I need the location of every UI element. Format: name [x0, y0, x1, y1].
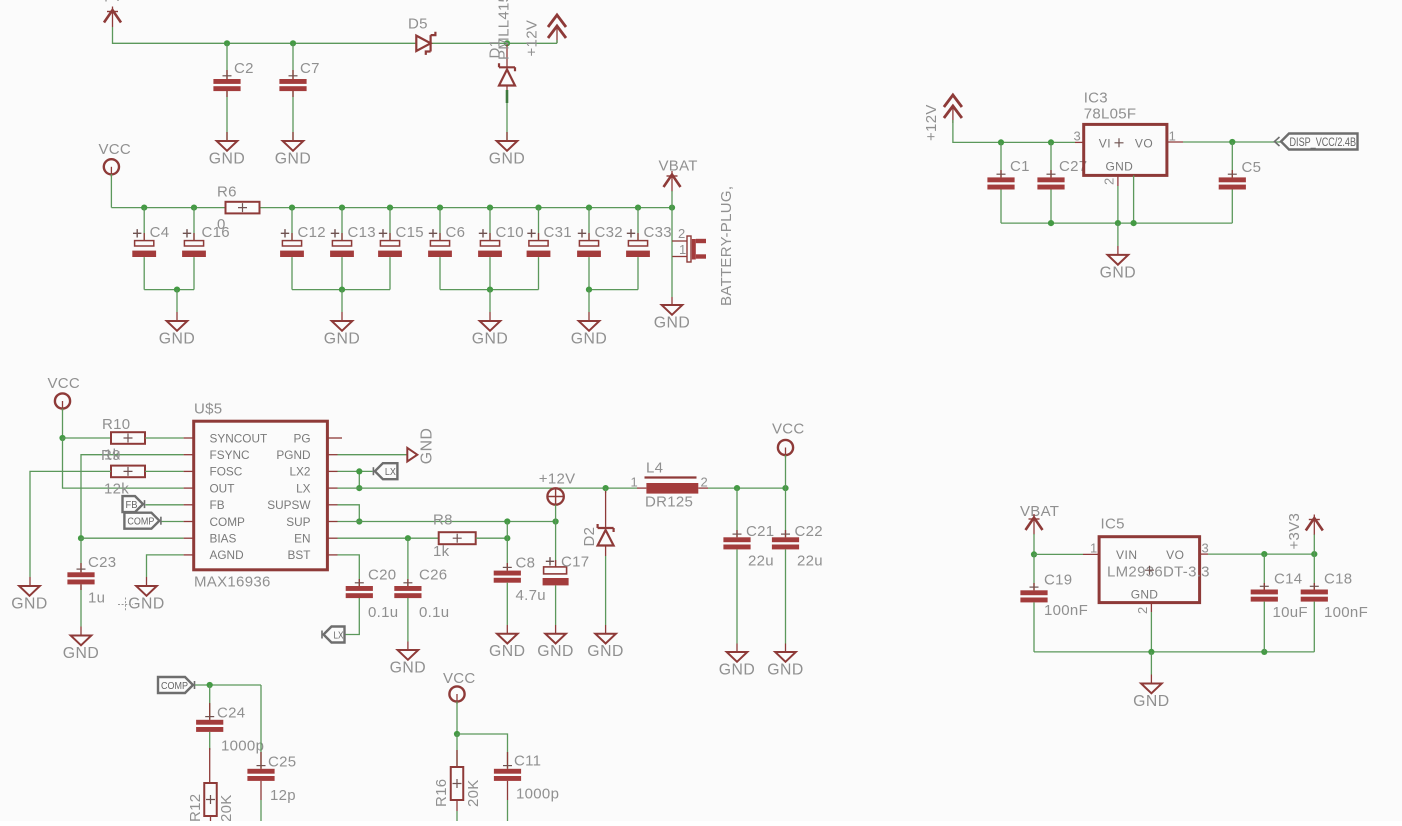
junction EN/C26: [405, 535, 411, 541]
svg-text:GND: GND: [1106, 159, 1134, 173]
ground below C8: [497, 634, 518, 644]
capacitor C21: [723, 534, 750, 549]
svg-text:+12V: +12V: [524, 20, 541, 57]
svg-text:1: 1: [1090, 541, 1098, 556]
junction VCC/R10: [59, 435, 65, 441]
capacitor C27: [1037, 174, 1064, 189]
svg-text:D2: D2: [581, 527, 598, 547]
junction rail C27: [1048, 220, 1054, 226]
U$5 pin EN (right stub): [327, 537, 337, 539]
svg-text:R12: R12: [187, 794, 204, 821]
wire C21 upper lead: [736, 488, 738, 537]
wire C18 to ground rail: [1313, 602, 1315, 652]
wire R9 to FOSC pin: [145, 470, 184, 472]
wire C17 upper lead: [555, 522, 557, 567]
wire R12 lower lead: [210, 816, 212, 821]
wire LX row to inductor: [338, 487, 638, 489]
wire C17 to ground: [555, 585, 557, 625]
junction VBAT/C19: [1031, 551, 1037, 557]
diode D1 PMLL415 (zener, vertical): [506, 43, 508, 68]
svg-text:78L05F: 78L05F: [1084, 106, 1137, 123]
capacitor C15 (polarized): [378, 229, 402, 257]
svg-text:2: 2: [701, 475, 709, 490]
svg-text:100nF: 100nF: [1324, 604, 1368, 621]
svg-text:GND: GND: [128, 596, 165, 613]
svg-text:VI: VI: [1099, 136, 1111, 150]
ground of IC5: [1141, 684, 1162, 694]
supply VCC (U$5): [55, 393, 70, 411]
net flag COMP (compensation): [158, 677, 195, 693]
wire LX2 to flag and LX tie: [338, 470, 373, 472]
svg-text:COMP: COMP: [161, 680, 188, 692]
svg-text:+12V: +12V: [539, 471, 576, 488]
svg-text:GND: GND: [767, 662, 804, 679]
junction rail C14: [1261, 649, 1267, 655]
wire VCC bus horizontal: [111, 207, 672, 209]
ground below C22: [775, 652, 796, 662]
wire C12 lower lead: [291, 257, 293, 290]
junction LX: [356, 485, 362, 491]
supply VCC (bus left): [104, 159, 119, 177]
svg-text:GND: GND: [472, 331, 509, 348]
wire C31 upper lead: [538, 208, 540, 241]
wire +3V3 stem: [1313, 535, 1315, 555]
resistor R6: [226, 202, 260, 214]
svg-text:12p: 12p: [270, 787, 296, 804]
wire VBAT stem: [671, 191, 673, 208]
wire C27 lower lead: [1050, 190, 1052, 224]
wire D2 to ground: [605, 546, 607, 557]
svg-text:C33: C33: [644, 224, 672, 241]
net flag FB: [123, 496, 145, 512]
wire FB flag to pin: [146, 504, 184, 506]
capacitor C8: [494, 567, 521, 582]
wire rail to ground: [588, 290, 590, 312]
junction bus at C13: [339, 205, 345, 211]
svg-text:DR125: DR125: [645, 494, 693, 511]
svg-text:1000p: 1000p: [516, 786, 559, 803]
wire IC5 GND pin down: [1150, 603, 1152, 612]
wire IC5 ground rail: [1034, 651, 1314, 653]
wire C11 lower lead: [507, 781, 509, 800]
svg-text:LX2: LX2: [290, 465, 311, 479]
svg-text:GND: GND: [1133, 693, 1170, 710]
U$5 pin BST (right stub): [327, 554, 337, 556]
wire C18 upper lead: [1313, 554, 1315, 589]
svg-text:FSYNC: FSYNC: [210, 448, 250, 462]
resistor R8: [439, 532, 476, 544]
battery plug connector X (BATTERY-PLUG): [672, 240, 687, 242]
ground below battery plug: [662, 305, 683, 315]
junction C14 tap: [1261, 551, 1267, 557]
wire C21 to ground: [736, 549, 738, 643]
capacitor C4 (polarized): [132, 229, 156, 257]
junction on ground rail: [487, 287, 493, 293]
junction bus at C32: [586, 205, 592, 211]
wire COMP down to C25: [260, 685, 262, 769]
svg-text:GND: GND: [571, 331, 608, 348]
wire R10 to SYNCOUT pin: [145, 437, 184, 439]
wire C10 lower lead: [489, 257, 491, 290]
wire C22 upper lead: [785, 488, 787, 537]
wire C14 to ground rail: [1263, 602, 1265, 652]
junction rail GND: [1148, 649, 1154, 655]
svg-text:VO: VO: [1135, 136, 1153, 150]
wire VBAT to IC5 VIN: [1034, 553, 1083, 555]
capacitor C20: [346, 583, 373, 598]
svg-text:L4: L4: [646, 460, 663, 477]
capacitor C17 (polarized): [543, 557, 569, 585]
IC U$5 MAX16936 box: [194, 421, 328, 570]
wire C27 upper lead: [1050, 142, 1052, 177]
capacitor C12 (polarized): [280, 229, 304, 257]
svg-text:GND: GND: [537, 643, 574, 660]
svg-text:20K: 20K: [218, 794, 235, 821]
svg-text:C1: C1: [1010, 158, 1030, 175]
U$5 pin AGND (left stub): [184, 554, 194, 556]
junction VBAT tap on bus: [669, 205, 675, 211]
ground below C17: [545, 634, 566, 644]
svg-text:GND: GND: [489, 151, 526, 168]
svg-text:20K: 20K: [465, 779, 482, 807]
wire C6 upper lead: [439, 208, 441, 241]
svg-text:C8: C8: [516, 555, 536, 572]
U$5 pin BIAS (left stub): [184, 537, 194, 539]
wire C5 lower lead: [1231, 190, 1233, 224]
IC3 voltage regulator 78L05F: [1084, 124, 1167, 175]
wire BIAS junction down to C23: [80, 538, 82, 572]
svg-text:GND: GND: [159, 331, 196, 348]
capacitor C19: [1020, 587, 1047, 602]
svg-text:GND: GND: [1100, 264, 1137, 281]
svg-text:C7: C7: [300, 60, 320, 77]
wire R8 right: [476, 537, 508, 539]
svg-text:1: 1: [631, 475, 639, 490]
ground of cap-bank group: [167, 321, 188, 331]
junction at D1 tap: [504, 40, 510, 46]
wire rail to ground: [341, 290, 343, 312]
svg-text:OUT: OUT: [210, 481, 235, 495]
svg-text:3: 3: [1202, 541, 1210, 556]
wire VCC stem: [110, 174, 112, 208]
wire C10 upper lead: [489, 208, 491, 241]
svg-text:MAX16936: MAX16936: [194, 574, 271, 591]
svg-text:IC5: IC5: [1101, 516, 1125, 533]
svg-text:BST: BST: [288, 548, 311, 562]
net flag COMP: [124, 513, 160, 529]
capacitor C2: [213, 76, 240, 91]
svg-text:C25: C25: [268, 754, 296, 771]
wire C15 upper lead: [389, 208, 391, 241]
wire rail to ground: [176, 290, 178, 312]
wire C33 lower lead: [637, 257, 639, 290]
wire COMP flag to C24/C25: [195, 684, 261, 686]
junction C22/VCC tap: [782, 485, 788, 491]
svg-text:COMP: COMP: [127, 516, 154, 528]
wire C31 lower lead: [538, 257, 540, 290]
U$5 pin LX2 (right stub): [327, 470, 337, 472]
junction C24: [207, 682, 213, 688]
svg-text:BATTERY-PLUG,: BATTERY-PLUG,: [718, 186, 735, 306]
U$5 pin OUT (left stub): [184, 487, 194, 489]
svg-text:GND: GND: [1131, 587, 1159, 601]
svg-text:C20: C20: [368, 567, 396, 584]
wire VBAT stem: [1033, 534, 1035, 554]
capacitor C31 (polarized): [527, 229, 551, 257]
junction bus at C10: [487, 205, 493, 211]
junction bus at C15: [387, 205, 393, 211]
junction rail GND pin 2: [1131, 220, 1137, 226]
junction C1 tap: [998, 139, 1004, 145]
capacitor C16 (polarized): [182, 229, 206, 257]
U$5 pin SUP (right stub): [327, 521, 337, 523]
svg-text:GND: GND: [390, 660, 427, 677]
junction rail GND pin: [1115, 220, 1121, 226]
wire BST down to C20: [338, 555, 360, 586]
ground at FOSC divider: [19, 586, 40, 596]
wire C33 upper lead: [637, 208, 639, 241]
wire C16 upper lead: [193, 208, 195, 241]
wire cap-bank ground rail: [292, 289, 390, 291]
ground below C23: [71, 636, 92, 646]
net flag DISP_VCC/2.4B: [1275, 134, 1358, 150]
svg-text:GND: GND: [63, 645, 100, 662]
svg-text:GND: GND: [719, 662, 756, 679]
junction C5 tap: [1229, 139, 1235, 145]
wire C1 upper lead: [1000, 142, 1002, 177]
supply VCC (converter output): [778, 440, 793, 458]
capacitor C7: [279, 76, 306, 91]
svg-text:LX: LX: [296, 481, 311, 495]
wire EN row left of R8: [338, 537, 439, 539]
junction bus at C6: [437, 205, 443, 211]
junction C21 tap: [734, 485, 740, 491]
svg-text:D5: D5: [408, 16, 428, 33]
junction on ground rail: [339, 287, 345, 293]
wire +12V net top horizontal: [113, 27, 558, 43]
junction C18/+3V3 tap: [1311, 551, 1317, 557]
U$5 pin SYNCOUT (left stub): [184, 437, 194, 439]
capacitor C26: [394, 583, 421, 598]
svg-text:VCC: VCC: [443, 670, 476, 687]
svg-text:C14: C14: [1274, 571, 1302, 588]
svg-text:SUP: SUP: [286, 515, 310, 529]
supply arrow +12V (top-left, partially cut): [104, 7, 121, 28]
ground below D1: [497, 141, 518, 151]
svg-text:LM2936DT-3.3: LM2936DT-3.3: [1107, 564, 1210, 581]
capacitor C11: [494, 766, 521, 781]
wire L4 to VCC: [708, 487, 786, 489]
capacitor C25: [247, 766, 274, 781]
wire +12V to IC3 VI: [953, 120, 1075, 142]
svg-text:PG: PG: [293, 431, 310, 445]
svg-text:4.7u: 4.7u: [516, 587, 546, 604]
svg-text:2: 2: [678, 226, 686, 241]
supply VCC (R16 divider): [449, 686, 464, 704]
junction C27 tap: [1048, 139, 1054, 145]
junction bus at C12: [289, 205, 295, 211]
diode D5 (schottky, horizontal): [416, 32, 435, 55]
svg-text:C6: C6: [446, 224, 466, 241]
svg-text:C16: C16: [202, 224, 230, 241]
svg-text:AGND: AGND: [210, 548, 244, 562]
svg-text:GND: GND: [209, 151, 246, 168]
svg-text:22u: 22u: [797, 553, 823, 570]
wire C8 column tie to SUP: [506, 522, 508, 539]
wire VCC down to OUT row: [63, 438, 184, 488]
U$5 pin SUPSW (right stub): [327, 504, 337, 506]
svg-text:C10: C10: [496, 224, 524, 241]
svg-text:C18: C18: [1324, 571, 1352, 588]
svg-text:C19: C19: [1044, 572, 1072, 589]
svg-text:R8: R8: [433, 512, 453, 529]
svg-text:1000p: 1000p: [221, 738, 264, 755]
ground sideways at PGND: [407, 448, 417, 462]
svg-text:0.1u: 0.1u: [368, 604, 398, 621]
svg-text:10uF: 10uF: [1273, 604, 1308, 621]
IC5 voltage regulator LM2936DT-3.3: [1099, 537, 1200, 603]
ground below C2: [217, 141, 238, 151]
junction SUP/C8 column: [504, 518, 510, 524]
wire EN junction down to C26: [407, 538, 409, 586]
svg-text:GND: GND: [324, 331, 361, 348]
U$5 pin PG (right stub): [327, 437, 342, 439]
svg-text:C2: C2: [234, 60, 254, 77]
svg-text:GND: GND: [11, 596, 48, 613]
svg-text:C5: C5: [1242, 159, 1262, 176]
wire IC3 VO to DISP_VCC flag: [1167, 141, 1183, 143]
wire C16 lower lead: [193, 257, 195, 290]
wire C13 lower lead: [341, 257, 343, 290]
svg-text:VCC: VCC: [99, 141, 132, 158]
junction LX2: [356, 468, 362, 474]
capacitor C5: [1219, 174, 1246, 189]
svg-text:COMP: COMP: [210, 515, 246, 529]
wire AGND to ground: [147, 555, 184, 577]
wire arrow stem to net: [556, 40, 558, 43]
svg-text:GND: GND: [654, 315, 691, 332]
wire bus to battery plug pin2 / pin1: [671, 208, 673, 257]
svg-text:VIN: VIN: [1116, 548, 1138, 562]
wire C7 upper lead: [292, 43, 294, 79]
U$5 pin PGND (right stub): [327, 454, 337, 456]
U$5 pin COMP (left stub): [184, 521, 194, 523]
svg-text:22u: 22u: [748, 553, 774, 570]
wire C8 upper lead: [506, 538, 508, 570]
svg-text:PMLL415: PMLL415: [496, 0, 513, 60]
wire C22 to ground: [785, 549, 787, 643]
net flag LX (bootstrap): [322, 627, 345, 643]
svg-text:+3V3: +3V3: [1286, 513, 1303, 550]
svg-text:C26: C26: [419, 567, 447, 584]
svg-text:LX: LX: [334, 631, 344, 642]
wire C23 to ground: [80, 584, 82, 626]
wire FSYNC to BIAS tie: [81, 455, 184, 539]
svg-text:FOSC: FOSC: [210, 465, 243, 479]
wire C4 upper lead: [143, 208, 145, 241]
wire VCC down to R16: [456, 734, 458, 767]
junction bus at C31: [535, 205, 541, 211]
resistor R16: [451, 767, 464, 800]
svg-text:BIAS: BIAS: [210, 532, 237, 546]
wire R10 left: [63, 437, 112, 439]
capacitor C10 (polarized): [478, 229, 502, 257]
U$5 pin FB (left stub): [184, 504, 194, 506]
wire C24 to R12: [209, 732, 211, 750]
svg-text:C13: C13: [348, 224, 376, 241]
svg-text:2: 2: [1135, 606, 1150, 614]
wire cap-bank ground rail: [440, 289, 539, 291]
wire COMP flag to pin: [162, 521, 184, 523]
junction bus at C4: [141, 205, 147, 211]
svg-text:C22: C22: [795, 523, 823, 540]
resistor R10: [111, 432, 145, 444]
svg-text:LX: LX: [385, 466, 396, 478]
resistor R9: [111, 466, 145, 478]
svg-text:100nF: 100nF: [1044, 602, 1088, 619]
wire VCC stem to junction: [456, 702, 458, 735]
wire D1 to ground: [506, 86, 508, 101]
svg-text:1: 1: [1169, 129, 1177, 144]
svg-text:1k: 1k: [433, 543, 450, 560]
wire rail to ground: [489, 290, 491, 312]
junction on ground rail: [174, 287, 180, 293]
cursor crosshair artifact: [118, 598, 133, 612]
wire PGND to sideways ground: [338, 454, 408, 456]
wire IC3 ground rail: [1001, 222, 1232, 224]
wire C14 upper lead: [1263, 554, 1265, 589]
wire junction to C11: [457, 734, 508, 769]
svg-text:R9: R9: [101, 447, 121, 464]
svg-text:SYNCOUT: SYNCOUT: [210, 431, 268, 445]
capacitor C24: [196, 717, 223, 732]
wire battery plug pin1 to ground: [671, 257, 673, 298]
resistor R12: [204, 783, 217, 816]
wire IC3 second GND pin down: [1133, 175, 1135, 223]
svg-text:IC3: IC3: [1084, 90, 1108, 107]
svg-text:R6: R6: [217, 184, 237, 201]
ground of IC3: [1108, 255, 1129, 265]
svg-text:C4: C4: [150, 224, 170, 241]
wire C26 to ground: [407, 598, 409, 642]
svg-text:GND: GND: [418, 428, 435, 465]
svg-text:C32: C32: [595, 224, 623, 241]
wire C2 upper lead: [226, 43, 228, 79]
ground of cap-bank group: [480, 321, 501, 331]
U$5 pin FOSC (left stub): [184, 470, 194, 472]
capacitor C23: [67, 569, 94, 584]
wire C24 upper lead: [209, 685, 211, 720]
svg-text:SUPSW: SUPSW: [267, 498, 311, 512]
U$5 pin LX (right stub): [327, 487, 337, 489]
svg-text:R16: R16: [433, 779, 450, 807]
svg-text:C24: C24: [217, 705, 245, 722]
capacitor C18: [1301, 586, 1328, 601]
svg-text:VO: VO: [1166, 548, 1184, 562]
svg-text:FB: FB: [126, 499, 138, 511]
ground below C7: [283, 141, 304, 151]
svg-text:C15: C15: [396, 224, 424, 241]
svg-text:3: 3: [1074, 129, 1082, 144]
wire VCC stem: [785, 455, 787, 488]
net flag LX (at LX2 pin): [373, 463, 397, 479]
svg-text:DISP_VCC/2.4B: DISP_VCC/2.4B: [1290, 137, 1357, 149]
wire SUP row: [338, 521, 556, 523]
junction SUP/+12V stem: [553, 518, 559, 524]
junction on ground rail: [586, 287, 592, 293]
wire rail to ground symbol: [1117, 223, 1119, 246]
wire +12V stem to SUP row: [555, 505, 557, 522]
